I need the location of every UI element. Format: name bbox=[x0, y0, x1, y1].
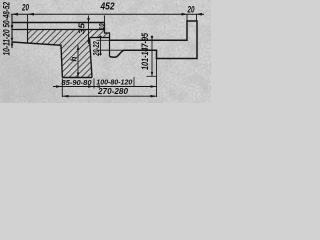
arrow at x12 on top dimension line bbox=[12, 13, 18, 16]
rib right side bbox=[90, 38, 93, 78]
extension line at rib right bottom corner bbox=[93, 79, 95, 89]
arrow at x196.5 on top dimension line bbox=[197, 13, 203, 16]
left arrow of 270-280 dimension bbox=[62, 95, 68, 98]
dimension line 20-22 (plate thickness) bbox=[100, 36, 102, 56]
extension line at rib left bottom corner bbox=[61, 79, 63, 98]
right arrow at x94 shared extension bbox=[94, 85, 100, 88]
extension line at x27.5 for left 20 bbox=[27, 14, 29, 22]
arrow at x156.5 on dimension line 100-80-120 bbox=[151, 85, 157, 88]
svg-text:452: 452 bbox=[100, 2, 115, 13]
extension line at step x156.5 bbox=[156, 59, 158, 98]
top facing layer underside line bbox=[12, 29, 105, 31]
hatched cross-section body of panel (slab band with edge rib) bbox=[28, 30, 110, 78]
arrow at bottom of 101-147-95 dimension bbox=[151, 72, 154, 76]
svg-text:35: 35 bbox=[77, 23, 87, 34]
svg-text:20-22: 20-22 bbox=[92, 41, 101, 57]
arrow up at top of left edge dimension bbox=[11, 23, 14, 28]
svg-text:10-11-20: 10-11-20 bbox=[2, 30, 12, 56]
svg-text:h: h bbox=[70, 57, 79, 62]
svg-text:10: 10 bbox=[99, 23, 106, 30]
arrow up for h dimension bbox=[77, 46, 80, 50]
arrow down at soffit level on left edge bbox=[11, 38, 14, 42]
svg-text:50-48-52: 50-48-52 bbox=[2, 2, 12, 28]
arrow down for h dimension bbox=[77, 73, 80, 77]
svg-text:85-90-80: 85-90-80 bbox=[62, 80, 92, 87]
dimension line 35 (slab thickness) bbox=[88, 16, 90, 45]
dimension line 101-147-95 (right element height) bbox=[151, 36, 153, 77]
panel left edge / vertical dimension line bbox=[11, 14, 13, 48]
outside arrow above for 20-22 dimension bbox=[99, 36, 102, 40]
bottom dimension line 85-90-80 / 100-80-120 bbox=[53, 86, 157, 88]
dimension line h (rib height) bbox=[77, 45, 79, 77]
slab soffit right of rib bbox=[90, 37, 110, 39]
top surface edge line bbox=[12, 22, 105, 24]
outside arrow above for 35 dimension bbox=[87, 18, 90, 23]
top dimension line (452 with end 20s) bbox=[11, 13, 204, 15]
svg-text:101-147-95: 101-147-95 bbox=[140, 32, 150, 70]
arrow at x187 on top dimension line bbox=[182, 13, 188, 16]
adjoining element outline (stepped plate with right upstand) bbox=[110, 21, 198, 59]
svg-text:270-280: 270-280 bbox=[97, 86, 128, 96]
slab soffit sloping line and rib left side bbox=[12, 42, 62, 78]
extension line at x134 bbox=[133, 77, 135, 87]
horizontal extension at rib bottom level for 101-147-95 bbox=[147, 75, 157, 77]
bottom dimension line 270-280 bbox=[62, 95, 156, 97]
svg-text:20: 20 bbox=[21, 2, 29, 12]
outside arrow below for 20-22 dimension bbox=[99, 51, 102, 55]
end face extension line up to dimension line bbox=[104, 16, 106, 23]
right arrow of 270-280 dimension bbox=[151, 95, 157, 98]
arrow down at facing layer underside bbox=[11, 25, 14, 29]
arrow down at nose level on left edge bbox=[11, 44, 14, 48]
panel end face with rebate notch bbox=[105, 23, 110, 57]
rib bottom edge bbox=[62, 77, 92, 79]
extension line at x196.5 for right 20 bbox=[196, 14, 198, 21]
extension tick at plate ledge level bbox=[97, 49, 125, 51]
facing layer joint vertical at x27.5 bbox=[27, 23, 29, 44]
outside arrow above for 101-147-95 dimension bbox=[151, 36, 154, 40]
extension line at x187 for right 20 bbox=[186, 14, 188, 21]
svg-text:20: 20 bbox=[187, 4, 195, 14]
left arrow at x94 shared extension bbox=[88, 85, 94, 88]
arrow at x28 on top dimension line bbox=[28, 13, 34, 16]
arrow at x62.3 on dimension line 85-90-80 bbox=[56, 85, 62, 88]
extension tick at plate top level bbox=[97, 39, 110, 41]
outside arrow below for 35 dimension bbox=[87, 37, 90, 42]
